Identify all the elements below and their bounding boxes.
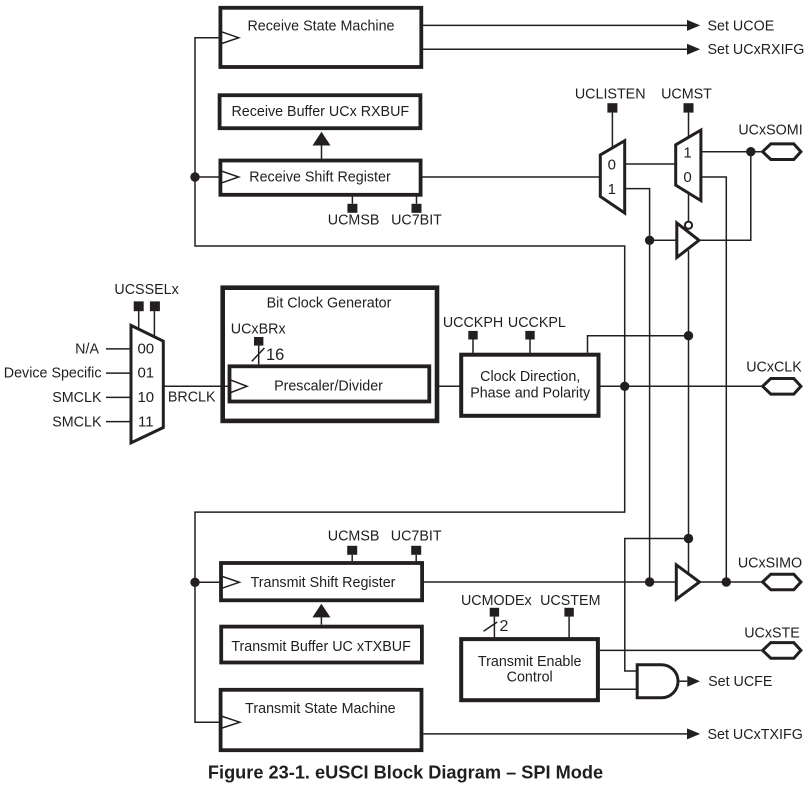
control square UC7BIT (transmit) with stem: [411, 546, 421, 561]
box: Transmit Shift Register: [221, 563, 422, 600]
junction: SOMI node: [746, 147, 755, 156]
svg-text:00: 00: [137, 341, 154, 358]
box: Clock Direction, Phase and Polarity: [461, 355, 598, 416]
junction: slave-input tap on SIMO line: [722, 577, 731, 586]
wire: UCMST enable to buffer bubble: [688, 193, 690, 222]
svg-text:UCCKPH: UCCKPH: [443, 315, 503, 331]
wire: mode input of clock phase box: [588, 336, 689, 353]
svg-text:UCMODEx: UCMODEx: [461, 593, 532, 609]
wire: shift register to UCLISTEN mux: [421, 176, 601, 178]
svg-text:UCMSB: UCMSB: [328, 529, 380, 545]
svg-text:2: 2: [500, 618, 509, 635]
control square UCxBRx with stem and bus-width slash: [252, 337, 265, 364]
wire: UCMST input 1 to UCxSOMI pin: [701, 151, 763, 153]
svg-text:Transmit Enable: Transmit Enable: [478, 654, 582, 670]
svg-text:Clock Direction,: Clock Direction,: [480, 369, 580, 385]
wire: branch to Transmit Shift Register clock: [195, 581, 221, 583]
pin UCxSTE: [763, 643, 801, 659]
svg-text:UCxSIMO: UCxSIMO: [738, 556, 802, 572]
wire: UCMST input 0 down to SIMO line: [701, 177, 726, 582]
svg-text:1: 1: [683, 145, 691, 162]
wire: tri-state buffer output up to SOMI node: [699, 152, 751, 241]
svg-text:BRCLK: BRCLK: [168, 389, 216, 405]
pin UCxSIMO: [763, 574, 801, 590]
mux UCLISTEN: [600, 141, 624, 213]
svg-text:UCxBRx: UCxBRx: [231, 322, 286, 338]
svg-text:UCMST: UCMST: [661, 86, 712, 102]
svg-text:Receive State Machine: Receive State Machine: [247, 18, 394, 34]
wire: SMCLK input 11: [106, 421, 131, 423]
svg-text:UCSSELx: UCSSELx: [114, 282, 178, 298]
arrow: transmit buffer to shift register: [312, 604, 330, 625]
box: Transmit State Machine: [221, 690, 422, 750]
clock chevron: Receive Shift Register: [220, 171, 238, 184]
control squares UCSSELx with stems: [134, 301, 160, 337]
mux UCMST: [676, 130, 701, 201]
svg-text:N/A: N/A: [75, 342, 99, 358]
control square UCLISTEN with stem: [607, 103, 617, 148]
svg-text:SMCLK: SMCLK: [52, 414, 102, 430]
wire: enable rail below buffer down to SIMO output buffer: [688, 251, 690, 574]
box: Receive State Machine: [220, 8, 421, 67]
control square UCSTEM with stem: [564, 608, 573, 640]
buffer: SIMO output driver: [676, 565, 699, 599]
box: Prescaler/Divider: [230, 366, 430, 401]
svg-text:Prescaler/Divider: Prescaler/Divider: [274, 379, 383, 395]
clock chevron: Prescaler/Divider: [230, 380, 248, 393]
clock chevron: Transmit State Machine: [221, 716, 240, 729]
wire: SIMO buffer output to pin: [700, 581, 763, 583]
svg-text:10: 10: [137, 389, 154, 406]
wire: AND output: [678, 680, 687, 682]
control square UCMSB (transmit) with stem: [347, 546, 357, 561]
svg-text:Receive Buffer UCx RXBUF: Receive Buffer UCx RXBUF: [231, 104, 409, 120]
arrowhead: Set UCxRXIFG: [687, 44, 700, 55]
box: Receive Buffer UCxRXBUF: [220, 95, 421, 128]
box: Transmit Buffer UCxTXBUF: [221, 627, 422, 663]
junction: loopback tap on SIMO line: [645, 577, 654, 586]
svg-text:Receive Shift Register: Receive Shift Register: [249, 170, 391, 186]
arrow: shift register to receive buffer: [313, 132, 331, 159]
svg-text:Control: Control: [507, 669, 553, 685]
svg-text:UCMSB: UCMSB: [328, 213, 380, 229]
svg-text:0: 0: [608, 156, 616, 173]
junction: transmit shift clock: [190, 578, 199, 587]
clock chevron: Receive State Machine: [220, 31, 238, 44]
box: Receive Shift Register: [220, 161, 420, 195]
pin UCxSOMI: [763, 144, 801, 160]
wire: BRCLK into prescaler chevron: [220, 385, 229, 387]
svg-text:Device Specific: Device Specific: [4, 366, 102, 382]
wire: Set UCOE: [423, 24, 687, 26]
control square UCCKPL with stem: [525, 331, 534, 353]
wire: UCxCLK output line: [601, 385, 763, 387]
control square UC7BIT (receive) with stem: [412, 196, 422, 213]
wire: BITCLK distribution rail: [195, 38, 625, 723]
svg-text:Set UCxRXIFG: Set UCxRXIFG: [708, 42, 805, 58]
wire: Set UCxTXIFG: [423, 733, 687, 735]
control square UCCKPH with stem: [468, 331, 477, 353]
AND gate: frame error detect: [637, 665, 678, 698]
svg-text:UCxSTE: UCxSTE: [744, 626, 800, 642]
svg-text:UCxCLK: UCxCLK: [746, 360, 802, 376]
svg-text:01: 01: [137, 365, 154, 382]
junction: mode tap: [684, 331, 693, 340]
svg-text:UC7BIT: UC7BIT: [391, 529, 442, 545]
svg-text:11: 11: [138, 413, 154, 430]
box: Transmit Enable Control: [461, 639, 598, 700]
junction: receive shift clock: [190, 172, 199, 181]
wire: transmit enable to AND gate bottom input: [598, 688, 637, 690]
svg-text:Phase and Polarity: Phase and Polarity: [470, 386, 591, 402]
mux UCSSELx: [131, 325, 163, 443]
svg-text:Figure 23-1. eUSCI Block Diagr: Figure 23-1. eUSCI Block Diagram – SPI M…: [208, 763, 603, 783]
wire: SIMO line from shift register to output buffer: [423, 581, 678, 583]
svg-text:UCSTEM: UCSTEM: [540, 593, 600, 609]
svg-text:1: 1: [608, 181, 616, 198]
wire: UCLISTEN input 1 loopback down to SIMO line: [625, 189, 650, 582]
junction: AND branch tap: [684, 534, 693, 543]
buffer: SOMI tri-state driver with inverted enable: [677, 222, 699, 258]
wire: Device Specific input: [106, 372, 131, 374]
svg-text:Set UCOE: Set UCOE: [708, 18, 775, 34]
svg-text:Transmit State Machine: Transmit State Machine: [245, 701, 395, 717]
junction: clock rail tap: [620, 382, 629, 391]
control square UCMSB (receive) with stem: [347, 196, 357, 213]
control square UCMODEx with stem and bus-width slash: [484, 608, 500, 640]
svg-text:UCxSOMI: UCxSOMI: [738, 123, 802, 139]
wire: bit clock generator to clock phase box: [439, 385, 460, 387]
svg-text:UC7BIT: UC7BIT: [391, 213, 442, 229]
svg-text:Set UCFE: Set UCFE: [708, 674, 772, 690]
svg-text:UCCKPL: UCCKPL: [508, 315, 566, 331]
svg-text:Transmit Buffer UC xTXBUF: Transmit Buffer UC xTXBUF: [231, 639, 411, 655]
wire: branch into tri-state buffer input: [650, 239, 677, 241]
svg-text:Bit Clock Generator: Bit Clock Generator: [267, 295, 392, 311]
wire: branch to AND gate top input: [625, 539, 689, 672]
arrowhead: Set UCxTXIFG: [687, 728, 700, 739]
wire: Set UCxRXIFG: [423, 48, 687, 50]
svg-text:SMCLK: SMCLK: [52, 390, 102, 406]
junction: buffer input tap: [645, 236, 654, 245]
arrowhead: Set UCOE: [687, 20, 700, 31]
pin UCxCLK: [763, 379, 801, 395]
wire: N/A input: [106, 348, 131, 350]
wire: BRCLK: [163, 385, 227, 387]
control square UCMST with stem: [684, 103, 694, 137]
svg-text:0: 0: [683, 169, 691, 186]
svg-text:UCLISTEN: UCLISTEN: [575, 86, 646, 102]
svg-text:16: 16: [266, 346, 284, 364]
wire: SMCLK input 10: [106, 396, 131, 398]
wire: branch to Receive Shift Register clock: [195, 176, 220, 178]
arrowhead: Set UCFE: [687, 676, 700, 687]
svg-text:Transmit Shift Register: Transmit Shift Register: [251, 575, 396, 591]
wire: UCMST mux output to UCLISTEN input 0: [625, 163, 676, 165]
clock chevron: Transmit Shift Register: [221, 576, 239, 589]
svg-text:Set UCxTXIFG: Set UCxTXIFG: [708, 727, 803, 743]
box: Bit Clock Generator: [223, 288, 437, 421]
wire: UCxSTE line: [598, 649, 763, 651]
